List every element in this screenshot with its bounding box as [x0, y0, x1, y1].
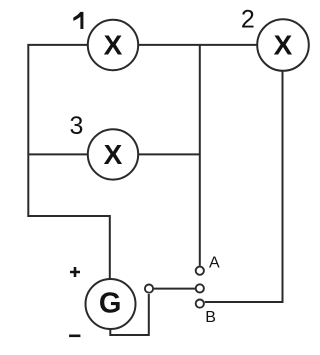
lamp X2 circle [257, 19, 309, 71]
wire switch pole to middle contact [154, 288, 195, 290]
svg-text:2: 2 [241, 6, 255, 34]
wire lamp3 right to vertical [139, 153, 200, 155]
svg-text:G: G [99, 287, 122, 319]
wire junction vertical to terminal A [199, 45, 201, 266]
wire lamp3 left [28, 153, 88, 155]
wire left loop: lamp1 left, down left side, to generator top [28, 45, 110, 279]
svg-text:B: B [205, 309, 216, 326]
svg-text:X: X [104, 30, 123, 61]
wire lamp1 right to lamp2 left [139, 44, 258, 46]
svg-text:X: X [104, 139, 123, 170]
lamp X1 circle [88, 20, 138, 70]
wire terminal B to right, up to lamp2 bottom [205, 71, 283, 303]
polarity minus [69, 334, 80, 337]
terminal A contact circle [196, 267, 204, 275]
wire generator bottom to switch pole circle [110, 294, 149, 335]
terminal B contact circle [196, 300, 204, 308]
middle contact circle [196, 284, 204, 292]
svg-text:A: A [209, 255, 220, 272]
lamp X3 circle [88, 129, 138, 179]
polarity plus [70, 267, 80, 277]
svg-text:3: 3 [69, 112, 83, 140]
switch pole contact circle [145, 285, 153, 293]
label 1 [73, 12, 83, 29]
svg-text:X: X [274, 30, 293, 61]
generator G circle [86, 279, 136, 329]
